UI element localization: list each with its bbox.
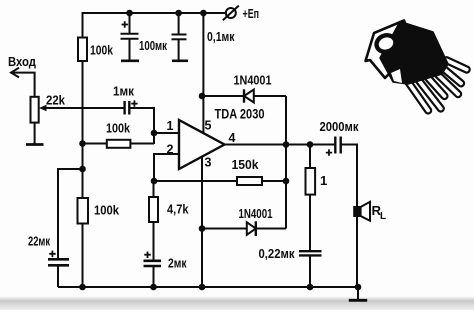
capacitor C1 1uF input xyxy=(125,100,138,114)
node rail C7 xyxy=(307,284,314,291)
node top rail C3 xyxy=(175,10,182,17)
wire pot wiper row xyxy=(47,107,125,109)
node rail speaker xyxy=(355,284,362,291)
svg-text:TDA 2030: TDA 2030 xyxy=(215,107,265,122)
node rail pin3 xyxy=(199,284,206,291)
node D2 tap xyxy=(199,225,206,232)
wire C1 to pin1 node xyxy=(129,108,154,144)
wire pin 2 to feedback node xyxy=(154,154,179,181)
svg-text:100мк: 100мк xyxy=(139,38,167,53)
node output zobel xyxy=(307,141,314,148)
wire speaker to ground rail xyxy=(356,216,358,287)
wire pin 3 to ground rail xyxy=(201,157,203,287)
wire R7 to C7 xyxy=(309,195,311,251)
wire pot bottom to ground xyxy=(34,123,36,144)
op-amp U1 TDA2030 xyxy=(179,120,225,169)
capacitor C4 22uF xyxy=(48,251,69,287)
svg-text:100k: 100k xyxy=(106,121,131,136)
diode D1 1N4001 upper xyxy=(202,89,286,102)
wire R5 bottom to ground rail xyxy=(82,224,84,288)
svg-text:1мк: 1мк xyxy=(113,84,134,99)
wire 1 ohm branch xyxy=(309,145,311,169)
wire 22uF tap xyxy=(58,169,83,259)
svg-text:22мк: 22мк xyxy=(28,234,50,249)
svg-text:2000мк: 2000мк xyxy=(320,119,359,134)
node rail R5 xyxy=(79,284,86,291)
resistor R7 1 ohm xyxy=(306,168,316,195)
node pin1 xyxy=(151,130,158,137)
wire bottom ground rail xyxy=(58,286,359,288)
transistor package TDA2030 pentawatt photo xyxy=(366,21,471,115)
capacitor C7 0.22uF xyxy=(299,251,322,287)
wire 4.7k branch top xyxy=(153,181,155,197)
node divider 100k tap xyxy=(79,140,86,147)
svg-text:4: 4 xyxy=(229,131,236,145)
wire pin 1 xyxy=(154,132,179,134)
svg-text:100k: 100k xyxy=(94,203,120,218)
svg-text:2: 2 xyxy=(167,143,174,157)
svg-text:150k: 150k xyxy=(232,157,260,172)
svg-text:100k: 100k xyxy=(90,43,114,58)
svg-text:3: 3 xyxy=(205,156,212,170)
wire top supply rail xyxy=(83,13,227,38)
potentiometer R2 22k xyxy=(31,97,47,123)
wire 4.7k to 2uF xyxy=(153,222,155,260)
svg-text:L: L xyxy=(380,211,386,222)
wire feedback row right xyxy=(262,180,286,182)
wire C6 to speaker xyxy=(341,145,357,208)
svg-text:1N4001: 1N4001 xyxy=(234,73,272,88)
wire feedback row left xyxy=(154,180,237,182)
ground under potentiometer xyxy=(26,143,44,146)
svg-text:1N4001: 1N4001 xyxy=(239,206,273,221)
svg-text:0,1мк: 0,1мк xyxy=(207,29,235,44)
svg-text:2мк: 2мк xyxy=(168,256,187,271)
input arrow Vhod xyxy=(11,68,35,97)
node top rail pin5 xyxy=(200,10,207,17)
resistor R1 100k upper-left xyxy=(78,38,87,62)
node rail C5 xyxy=(150,284,157,291)
capacitor C2 100uF supply xyxy=(121,13,139,60)
capacitor C5 2uF xyxy=(144,252,162,288)
svg-text:5: 5 xyxy=(205,119,212,133)
wire pin5 supply line xyxy=(202,13,204,134)
svg-text:0,22мк: 0,22мк xyxy=(259,246,295,261)
resistor R5 100k lower divider xyxy=(78,198,89,224)
ground bar under C3 xyxy=(172,59,188,62)
wire output vertical xyxy=(285,96,287,229)
diode D2 1N4001 lower xyxy=(202,221,286,236)
node 22uF tap xyxy=(79,166,86,173)
resistor R6 4.7k xyxy=(149,197,158,222)
node top rail C2 xyxy=(126,10,133,17)
power terminal +Ep xyxy=(223,6,239,21)
resistor R4 150k feedback xyxy=(237,177,262,185)
node feedback left xyxy=(151,178,158,185)
ground symbol bottom right xyxy=(349,287,367,300)
node output left xyxy=(283,141,290,148)
resistor R3 100k bias (horizontal) xyxy=(83,140,155,148)
svg-text:+Еп: +Еп xyxy=(243,6,260,21)
node D1 tap xyxy=(199,93,206,100)
svg-text:4,7k: 4,7k xyxy=(167,202,189,217)
ground bar under C2 xyxy=(121,59,139,62)
capacitor C6 2000uF output xyxy=(326,137,341,156)
wire R1 bottom to divider node xyxy=(82,61,84,198)
svg-text:1: 1 xyxy=(320,173,327,188)
speaker RL xyxy=(354,202,370,221)
capacitor C3 0.1uF supply xyxy=(172,13,187,60)
svg-text:22k: 22k xyxy=(46,93,66,108)
svg-text:Вход: Вход xyxy=(8,54,37,69)
svg-text:1: 1 xyxy=(167,119,174,133)
wire output row pin 4 xyxy=(225,144,336,146)
node feedback right xyxy=(283,178,290,185)
